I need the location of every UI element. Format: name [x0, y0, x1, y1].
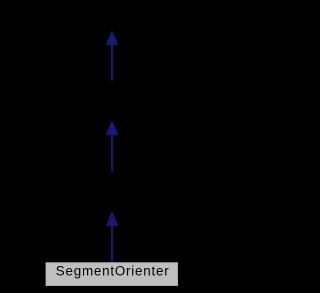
inheritance arrow 2 (middle) [106, 120, 119, 171]
inheritance graph: SegmentOrienter (dark background, upward arrows) [0, 0, 224, 293]
inheritance arrow 1 (top) [106, 30, 119, 81]
inheritance arrow 3 (bottom) [106, 211, 119, 262]
class box SegmentOrienter (grey fill) [46, 262, 178, 286]
svg-text:SegmentOrienter: SegmentOrienter [56, 264, 170, 279]
